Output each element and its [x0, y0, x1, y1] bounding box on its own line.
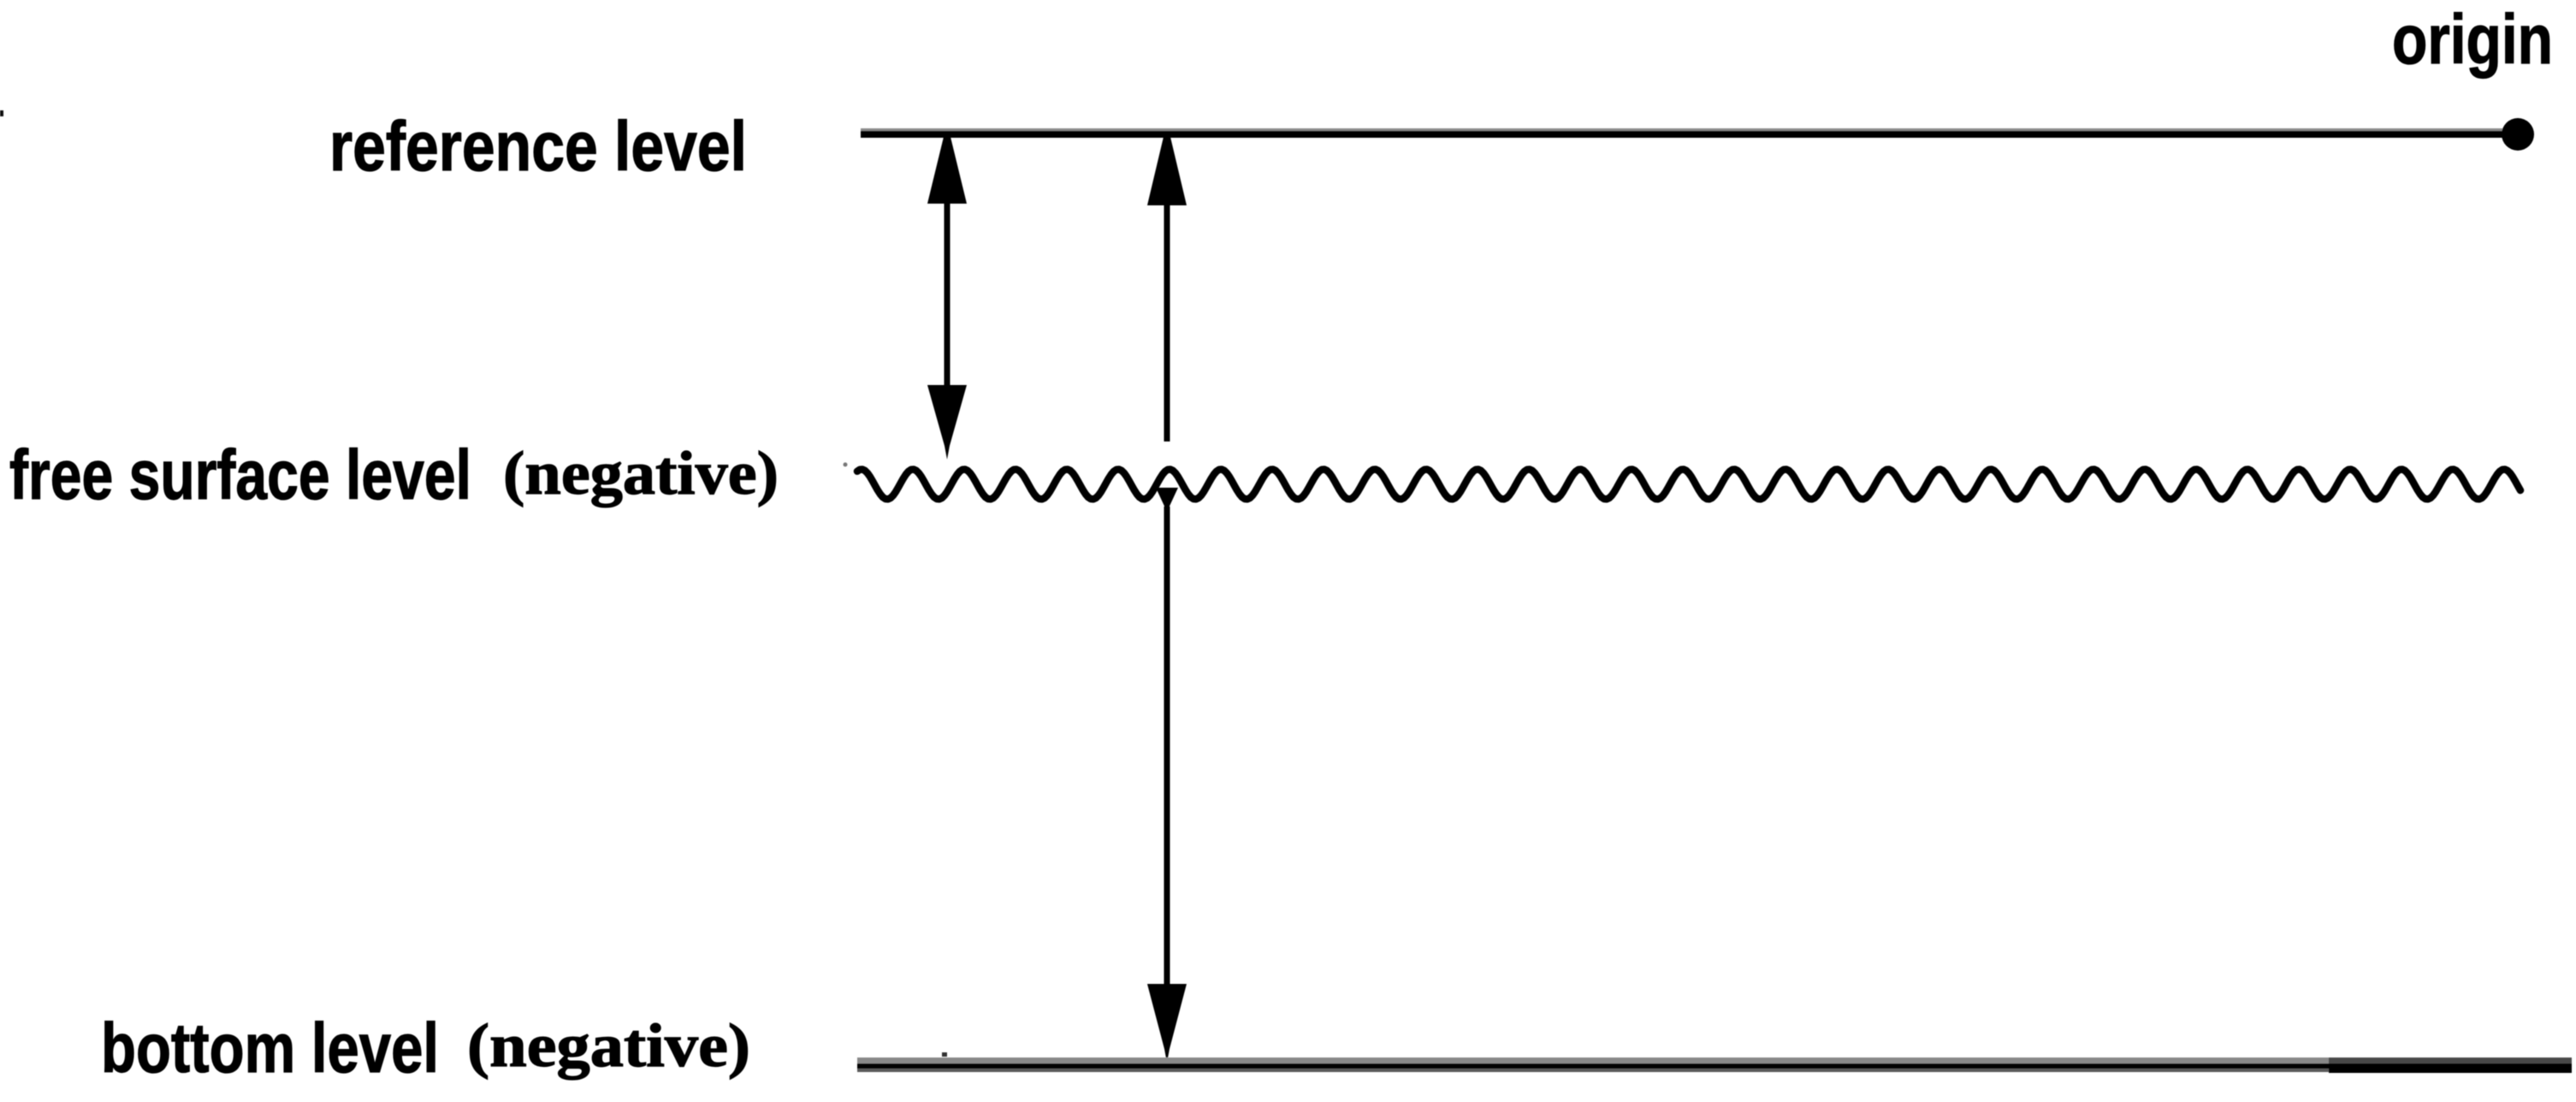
- arrow 1: reference level to free surface (double-headed): [927, 137, 967, 459]
- svg-text:origin: origin: [2392, 1, 2553, 79]
- stray mark top-left: [0, 110, 3, 116]
- svg-text:(negative): (negative): [503, 439, 779, 507]
- svg-text:reference level: reference level: [329, 108, 747, 186]
- arrow 2: reference level to bottom level (long, double-headed): [1147, 137, 1187, 1063]
- speck near wave start: [844, 463, 848, 467]
- origin dot: [2502, 118, 2534, 151]
- reference level line: [861, 128, 2520, 131]
- speck on bottom line: [942, 1052, 947, 1057]
- bottom level line: [857, 1058, 2572, 1073]
- free surface wavy line: [857, 470, 2520, 500]
- svg-text:free surface level: free surface level: [9, 436, 471, 514]
- svg-text:bottom level: bottom level: [101, 1010, 439, 1087]
- svg-text:(negative): (negative): [467, 1011, 750, 1080]
